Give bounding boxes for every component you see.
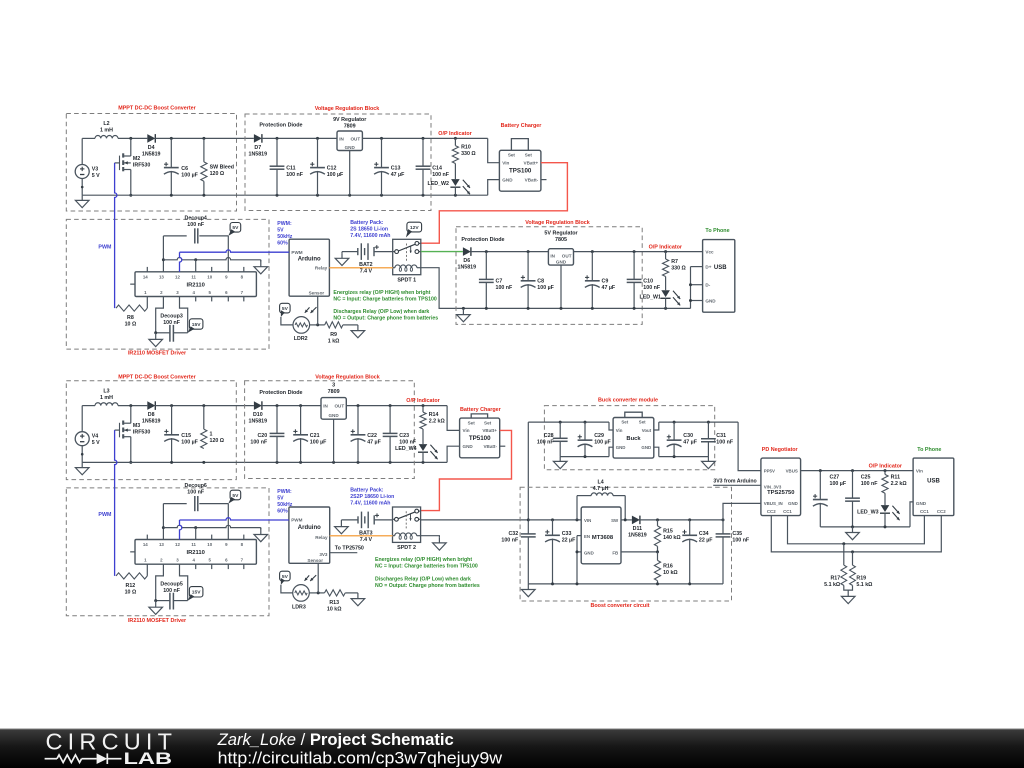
inductor L3 (95, 388, 118, 405)
capacitor C20 (250, 406, 284, 463)
svg-text:11: 11 (191, 542, 196, 547)
svg-text:Relay: Relay (315, 266, 328, 271)
svg-text:5V: 5V (282, 574, 289, 580)
diode D4 (142, 134, 161, 157)
wire boost out rail (640, 518, 725, 521)
svg-text:Decoup6: Decoup6 (185, 483, 207, 489)
svg-text:Voltage Regulation Block: Voltage Regulation Block (315, 374, 380, 380)
svg-text:Set: Set (639, 420, 646, 425)
svg-text:IN: IN (550, 253, 555, 258)
label MPPT DC-DC Boost Converter 1 (118, 106, 196, 112)
svg-text:5.1 kΩ: 5.1 kΩ (856, 582, 873, 588)
ldr LDR3 (292, 575, 316, 610)
label PD Negotiator (762, 447, 799, 453)
svg-text:IR2110 MOSFET Driver: IR2110 MOSFET Driver (128, 350, 187, 356)
tag 5V decoup4 (228, 223, 240, 236)
svg-text:330 Ω: 330 Ω (461, 151, 476, 157)
wire bottom rail 1 (82, 194, 488, 197)
svg-text:5 V: 5 V (92, 173, 100, 179)
ground relay2 coil (433, 537, 447, 550)
svg-text:CC1: CC1 (920, 509, 929, 514)
svg-text:Set: Set (468, 420, 476, 425)
svg-text:47 µF: 47 µF (602, 285, 616, 291)
charger TPS100 (499, 139, 541, 192)
label Protection Diode 3 (259, 390, 302, 396)
ic IR2110 2 (130, 535, 256, 570)
svg-text:100 nF: 100 nF (399, 440, 417, 446)
logo LAB text (124, 749, 173, 768)
svg-text:7809: 7809 (344, 124, 356, 130)
svg-text:C13: C13 (391, 165, 401, 171)
svg-text:CC2: CC2 (937, 509, 946, 514)
svg-text:5V: 5V (277, 495, 284, 501)
svg-text:C8: C8 (537, 279, 544, 285)
svg-text:C34: C34 (699, 531, 709, 537)
svg-text:L3: L3 (103, 388, 109, 394)
svg-text:D11: D11 (633, 526, 642, 532)
svg-text:13: 13 (159, 274, 164, 279)
wire L2 to D4 (118, 137, 147, 140)
wire D4 to D7 (155, 137, 254, 140)
svg-text:L2: L2 (103, 121, 109, 127)
capacitor C21 (293, 406, 327, 463)
dashed box voltage regulation 3 (245, 381, 415, 479)
svg-text:VIN_3V3: VIN_3V3 (764, 485, 782, 490)
capacitor C22 (351, 406, 382, 463)
battery BAT3 (341, 512, 392, 543)
svg-text:9V Regulator: 9V Regulator (333, 117, 367, 123)
wire boost input rail (528, 518, 581, 521)
svg-text:TPS100: TPS100 (509, 167, 532, 174)
svg-text:7809: 7809 (328, 389, 340, 395)
ldr LDR2 (293, 307, 317, 342)
svg-text:PWM: PWM (98, 245, 112, 251)
wire D6 to 7805 (471, 250, 549, 253)
svg-text:USB: USB (927, 478, 940, 484)
label IR2110 MOSFET Driver 1 (128, 350, 187, 356)
svg-text:D10: D10 (253, 412, 263, 418)
wire bottom rail 3 (82, 461, 447, 464)
svg-text:MPPT DC-DC Boost Converter: MPPT DC-DC Boost Converter (118, 374, 196, 380)
wire regulator out rail (362, 137, 487, 140)
wire pd gnd rail (820, 525, 910, 528)
green note 2 (333, 309, 438, 322)
wire rail to TP5100 Vin (447, 406, 460, 431)
svg-text:GND: GND (916, 501, 927, 506)
svg-text:LED_W4: LED_W4 (395, 446, 417, 452)
charger TP5100 (460, 414, 500, 458)
svg-text:Sensor: Sensor (307, 558, 323, 563)
logo resistor diode glyph (45, 753, 122, 764)
svg-text:MPPT DC-DC Boost Converter: MPPT DC-DC Boost Converter (118, 106, 196, 112)
svg-text:To Phone: To Phone (917, 447, 941, 453)
ground buck left (553, 457, 567, 469)
svg-text:VBatt+: VBatt+ (524, 160, 539, 165)
svg-text:Decoup3: Decoup3 (160, 314, 182, 320)
regulator U 7809 top (333, 117, 367, 151)
label O/P Indicator 1 (438, 131, 472, 137)
svg-text:13: 13 (159, 542, 164, 547)
wire 5V to LDR2 (281, 317, 293, 325)
svg-text:D6: D6 (463, 258, 470, 264)
ground R17 R19 (841, 590, 855, 603)
tag 5V decoup6 (228, 490, 240, 503)
svg-text:R7: R7 (671, 259, 678, 265)
ground decoup3 (149, 333, 163, 347)
wire relay2 coil to ground (421, 536, 440, 538)
inductor L2 (95, 121, 118, 138)
svg-text:C20: C20 (257, 433, 267, 439)
svg-text:R17: R17 (830, 575, 840, 581)
resistor R11 (882, 471, 907, 494)
svg-text:100 µF: 100 µF (181, 173, 198, 179)
svg-text:IR2110: IR2110 (187, 283, 205, 289)
svg-text:D7: D7 (254, 145, 261, 151)
wire rail to TPS100 GND (488, 180, 500, 196)
tag 15V 1 (188, 319, 203, 333)
svg-text:5 V: 5 V (92, 440, 100, 446)
svg-text:100 nF: 100 nF (187, 222, 205, 228)
svg-text:R9: R9 (330, 332, 337, 338)
svg-text:12V: 12V (410, 225, 419, 231)
dashed box IR2110 driver 1 (66, 219, 269, 349)
svg-text:VBUS_IN: VBUS_IN (764, 501, 783, 506)
svg-text:10 Ω: 10 Ω (125, 589, 137, 595)
svg-text:NC = Input: Charge batteries f: NC = Input: Charge batteries from TP5100 (375, 564, 478, 570)
svg-text:To Phone: To Phone (705, 228, 729, 234)
svg-text:VBUS: VBUS (786, 468, 798, 473)
label Protection Diode 1 (259, 123, 302, 129)
label Battery Charger 2 (460, 407, 502, 413)
svg-text:Vin: Vin (502, 160, 509, 165)
dashed box MPPT boost converter 1 (66, 114, 236, 212)
svg-text:14: 14 (143, 274, 148, 279)
svg-text:Protection Diode: Protection Diode (259, 390, 302, 396)
usb port 1 (703, 240, 735, 313)
svg-text:Voltage Regulation Block: Voltage Regulation Block (525, 220, 590, 226)
decoup4 capacitor (163, 215, 228, 243)
svg-text:14: 14 (143, 542, 148, 547)
arduino 1 (289, 239, 329, 296)
svg-text:100 nF: 100 nF (163, 588, 181, 594)
wire R17 R19 join (844, 585, 853, 590)
wire sensor 1 (317, 296, 319, 325)
label Voltage Regulation Block 2 (525, 220, 590, 226)
wire top rail left (82, 137, 95, 139)
capacitor C25 (845, 471, 878, 527)
transistor M3 (115, 406, 151, 439)
capacitor C12 (310, 138, 344, 195)
ground at V3 (75, 195, 89, 207)
svg-text:C35: C35 (732, 531, 742, 537)
svg-text:100 nF: 100 nF (732, 538, 750, 544)
label Battery Pack 2 (350, 487, 394, 506)
ground boost (522, 584, 536, 597)
label Boost converter circuit (590, 603, 649, 609)
label O/P Indicator 2 (649, 245, 683, 251)
svg-text:50kHz: 50kHz (277, 502, 292, 508)
wire D10 to regulator (262, 404, 321, 407)
resistor SW Bleed (201, 138, 234, 195)
capacitor C10 (627, 252, 661, 309)
green note 3 (375, 557, 478, 570)
svg-text:2.2 kΩ: 2.2 kΩ (891, 481, 908, 487)
svg-text:1 kΩ: 1 kΩ (328, 339, 340, 345)
svg-text:D8: D8 (148, 412, 155, 418)
decoup6 capacitor (163, 483, 228, 511)
svg-text:PP5V: PP5V (764, 468, 775, 473)
svg-text:2.2 kΩ: 2.2 kΩ (429, 419, 446, 425)
svg-text:15V: 15V (192, 590, 201, 596)
blue wire pin12 to arduino (180, 250, 290, 272)
wire 5V to pin9 (227, 236, 229, 272)
svg-text:C21: C21 (310, 433, 320, 439)
svg-text:GND: GND (463, 444, 474, 449)
relay SPDT 1 (393, 239, 421, 283)
dashed box buck module (544, 406, 714, 470)
inductor L4 (577, 480, 625, 520)
svg-text:GND: GND (705, 298, 716, 303)
label Protection Diode 2 (461, 237, 504, 243)
svg-text:7805: 7805 (555, 237, 567, 243)
regulator U 7809 bottom (321, 382, 346, 419)
wire top rail 2 left (82, 405, 95, 407)
tag 5V ldr3 (280, 571, 291, 585)
svg-text:R8: R8 (127, 315, 134, 321)
svg-text:C32: C32 (508, 531, 518, 537)
svg-text:PWM:: PWM: (277, 221, 292, 227)
wire CC2 net (771, 516, 941, 554)
voltage source V3 (75, 138, 100, 195)
svg-text:100 nF: 100 nF (537, 440, 555, 446)
svg-text:NO = Output: Charge phone from: NO = Output: Charge phone from batteries (375, 583, 480, 589)
tag 12V (406, 222, 422, 237)
dashed box voltage regulation 2 (456, 227, 642, 325)
resistor R9 (325, 322, 343, 345)
svg-text:Buck converter module: Buck converter module (598, 398, 658, 404)
label Battery Charger 1 (501, 123, 543, 129)
decoup5 capacitor (154, 564, 188, 609)
wire buck input rail (528, 421, 613, 430)
svg-text:IN: IN (339, 136, 344, 141)
svg-text:IR2110 MOSFET Driver: IR2110 MOSFET Driver (128, 618, 187, 624)
svg-text:100 nF: 100 nF (501, 538, 519, 544)
svg-text:Battery Pack:: Battery Pack: (350, 487, 383, 493)
svg-text:C31: C31 (716, 433, 726, 439)
svg-text:SW: SW (611, 518, 619, 523)
svg-text:R11: R11 (891, 475, 900, 481)
wire usb1 ties (689, 267, 703, 309)
svg-text:5V: 5V (277, 228, 284, 234)
svg-text:Energizes relay (O/P HIGH) whe: Energizes relay (O/P HIGH) when bright (333, 290, 430, 296)
capacitor C8 (521, 252, 555, 309)
svg-text:CC2: CC2 (767, 509, 776, 514)
svg-text:R16: R16 (663, 563, 673, 569)
wire LDR2 to R9 (310, 323, 325, 326)
svg-text:Set: Set (484, 420, 492, 425)
svg-text:100 nF: 100 nF (286, 172, 304, 178)
wire 7809 GND down (349, 151, 351, 196)
svg-text:10: 10 (207, 274, 212, 279)
svg-text:EN: EN (584, 534, 590, 539)
wire 5V to LDR3 (281, 585, 293, 593)
svg-text:VIN: VIN (584, 518, 591, 523)
svg-text:TPS25750: TPS25750 (767, 490, 794, 496)
capacitor C27 (813, 471, 847, 527)
svg-text:Voltage Regulation Block: Voltage Regulation Block (315, 106, 380, 112)
svg-text:V3: V3 (92, 166, 99, 172)
svg-text:100 nF: 100 nF (163, 320, 181, 326)
svg-text:GND: GND (788, 501, 798, 506)
svg-text:MT3608: MT3608 (592, 535, 614, 541)
svg-text:Sensor: Sensor (309, 290, 325, 295)
svg-text:VBatt-: VBatt- (483, 444, 497, 449)
svg-text:11: 11 (191, 274, 196, 279)
svg-text:LED_W1: LED_W1 (640, 294, 662, 300)
svg-text:100 nF: 100 nF (187, 490, 205, 496)
resistor R15 (654, 520, 681, 552)
capacitor C31 (701, 422, 734, 457)
svg-text:http://circuitlab.com/cp3w7qhe: http://circuitlab.com/cp3w7qhejuy9w (218, 749, 504, 768)
svg-text:1N5819: 1N5819 (249, 152, 268, 158)
svg-text:LDR3: LDR3 (292, 604, 306, 610)
ground net B1 (254, 260, 268, 274)
svg-text:C15: C15 (181, 433, 191, 439)
svg-text:Discharges Relay (O/P Low) whe: Discharges Relay (O/P Low) when dark (333, 309, 429, 315)
logo CIRCUIT text (46, 729, 173, 755)
ground at BAT3 (335, 520, 349, 534)
svg-text:GND: GND (584, 551, 594, 556)
wire buck to PP5V (738, 422, 761, 471)
dashed box MPPT boost converter 2 (66, 381, 236, 480)
svg-text:C12: C12 (327, 165, 337, 171)
wire relay coil to gnd rail (421, 268, 464, 309)
svg-text:330 Ω: 330 Ω (671, 266, 686, 272)
capacitor C11 (270, 138, 304, 195)
svg-text:5V: 5V (232, 493, 239, 499)
svg-text:GND: GND (616, 445, 626, 450)
capacitor C6 (164, 138, 199, 195)
svg-text:C29: C29 (594, 433, 604, 439)
svg-text:V4: V4 (92, 434, 99, 440)
svg-text:R10: R10 (461, 144, 471, 150)
ground net B2 (254, 528, 268, 542)
svg-text:7.4V, 11600 mAh: 7.4V, 11600 mAh (350, 233, 390, 239)
svg-text:47 µF: 47 µF (683, 440, 697, 446)
wire M3 source to rail (129, 437, 132, 464)
svg-text:C25: C25 (861, 475, 871, 481)
svg-text:100 nF: 100 nF (250, 440, 268, 446)
svg-text:C6: C6 (181, 166, 188, 172)
svg-text:5V: 5V (232, 225, 239, 231)
svg-text:1 mH: 1 mH (100, 128, 113, 134)
svg-text:C22: C22 (367, 433, 377, 439)
svg-text:10: 10 (207, 542, 212, 547)
svg-text:IRF530: IRF530 (133, 430, 150, 436)
svg-text:12: 12 (175, 542, 180, 547)
wire VBUS_IN (723, 503, 761, 520)
svg-text:47 µF: 47 µF (391, 172, 405, 178)
svg-text:7.4 V: 7.4 V (360, 537, 373, 543)
svg-text:GND: GND (556, 260, 567, 265)
svg-text:OUT: OUT (350, 136, 360, 141)
label Buck converter module (598, 398, 658, 404)
svg-text:SW Bleed: SW Bleed (210, 165, 234, 171)
svg-text:PWM:: PWM: (277, 489, 292, 495)
svg-text:60%: 60% (277, 241, 288, 247)
svg-text:140 kΩ: 140 kΩ (663, 535, 681, 541)
svg-text:R12: R12 (126, 583, 136, 589)
wire rail to TP5100 GND (447, 446, 460, 462)
svg-text:100 nF: 100 nF (861, 481, 879, 487)
svg-text:Vout: Vout (642, 428, 652, 433)
label To Phone 2 (917, 447, 941, 453)
svg-text:IR2110: IR2110 (187, 550, 205, 556)
svg-text:10 kΩ: 10 kΩ (327, 607, 342, 613)
svg-text:100 µF: 100 µF (594, 440, 611, 446)
capacitor C7 (479, 252, 513, 309)
svg-text:Arduino: Arduino (298, 525, 321, 531)
svg-text:100 µF: 100 µF (310, 440, 327, 446)
resistor bleed 2 (201, 406, 225, 449)
resistor R14 (420, 406, 446, 429)
svg-text:1 mH: 1 mH (100, 395, 113, 401)
svg-text:Set: Set (621, 420, 628, 425)
wire rail to TPS100 Vin (488, 138, 500, 162)
dashed box IR2110 driver 2 (66, 488, 269, 616)
svg-text:15V: 15V (192, 322, 201, 328)
svg-text:Battery Pack:: Battery Pack: (350, 220, 383, 226)
svg-text:Vin: Vin (916, 468, 923, 473)
resistor R17 (824, 544, 847, 588)
wire buck out rail (654, 421, 738, 430)
green note 4 (375, 577, 480, 590)
capacitor C33 (545, 520, 576, 584)
svg-text:Set: Set (525, 153, 533, 158)
svg-text:C27: C27 (830, 475, 840, 481)
svg-text:O/P Indicator: O/P Indicator (438, 131, 472, 137)
resistor R8 (116, 297, 147, 328)
ground decoup5 (149, 601, 163, 615)
wire EN GND tie (576, 536, 582, 584)
capacitor C29 (578, 422, 612, 457)
svg-text:TP5100: TP5100 (469, 435, 491, 442)
module MT3608 (581, 507, 621, 564)
wire 7809b GND down (333, 419, 335, 462)
svg-text:3: 3 (332, 382, 335, 388)
svg-text:VBatt+: VBatt+ (482, 428, 497, 433)
capacitor C35 (716, 520, 750, 584)
capacitor C9 (585, 252, 616, 309)
diode D11 (628, 516, 647, 539)
svg-text:100 nF: 100 nF (496, 285, 514, 291)
transistor M2 (115, 138, 151, 171)
ground rail 2 (457, 308, 471, 321)
wire LDR3 to R13 (309, 591, 324, 594)
svg-text:12: 12 (175, 274, 180, 279)
wire VBUS rail (801, 469, 914, 472)
svg-text:2S 18650 Li-ion: 2S 18650 Li-ion (350, 226, 388, 232)
svg-text:LED_W2: LED_W2 (428, 181, 450, 187)
wire 3V3 from arduino (713, 478, 761, 485)
svg-text:1N5819: 1N5819 (142, 152, 161, 158)
svg-text:GND: GND (502, 177, 513, 182)
svg-text:1N5819: 1N5819 (628, 532, 647, 538)
svg-text:GND: GND (641, 445, 651, 450)
svg-text:GND: GND (328, 413, 339, 418)
svg-text:60%: 60% (277, 508, 288, 514)
svg-text:O/P Indicator: O/P Indicator (649, 245, 683, 251)
